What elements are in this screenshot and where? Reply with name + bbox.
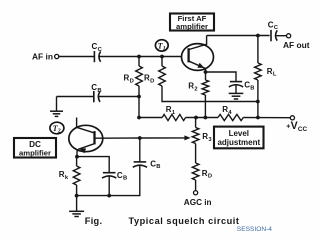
- wire rail left segment: [139, 117, 162, 119]
- svg-text:Typical squelch circuit: Typical squelch circuit: [129, 216, 240, 226]
- svg-text:amplifier: amplifier: [19, 148, 51, 157]
- test point T2: [50, 122, 64, 135]
- svg-text:Fig.: Fig.: [85, 216, 103, 226]
- wire R_D2 top lead: [161, 57, 163, 67]
- svg-text:Level: Level: [229, 129, 249, 138]
- resistor R_1: [162, 105, 185, 121]
- terminal: AF in: [55, 54, 59, 58]
- label AGC in: [184, 198, 212, 207]
- transistor Q1 collector: [189, 36, 207, 50]
- svg-text:amplifier: amplifier: [176, 22, 208, 31]
- caption title: [129, 216, 240, 226]
- node: junction R_3 / rail: [194, 116, 198, 120]
- capacitor C_C1 (input coupling): [92, 42, 103, 62]
- transistor Q1 circle: [182, 44, 214, 71]
- node: junction R_D2/top wire: [160, 55, 164, 59]
- wire R_L top lead: [257, 36, 259, 64]
- terminal: AF out: [287, 34, 291, 38]
- resistor R_D2: [144, 66, 165, 86]
- transistor Q1 emitter: [189, 61, 206, 72]
- capacitor C_B3: [133, 159, 161, 170]
- svg-text:SESSION-4: SESSION-4: [237, 226, 273, 233]
- wire Q1 collector to C_C2: [207, 35, 270, 37]
- node: junction collector / C_B3: [138, 136, 142, 140]
- svg-text:AF in: AF in: [32, 52, 53, 62]
- terminal: AGC in: [194, 191, 198, 195]
- wire R_D2 bottom lead + corner: [162, 86, 258, 102]
- ground (top-left): [50, 97, 63, 117]
- ground (under C_B2): [229, 85, 244, 99]
- wire C_B3 bottom lead + corner: [77, 165, 140, 195]
- wire rail right segment: [243, 117, 290, 119]
- svg-text:AF out: AF out: [283, 40, 310, 50]
- box: Level adjustment: [214, 127, 264, 149]
- node: junction C_B4 / bottom line: [107, 194, 111, 198]
- transistor Q2 collector: [95, 137, 140, 139]
- transistor Q2 circle: [69, 125, 103, 151]
- caption SESSION-4: [237, 226, 273, 233]
- wire rail mid segment: [186, 117, 218, 119]
- resistor R_D3: [192, 163, 212, 180]
- wire Vcc rail corner to Q2 base: [76, 118, 78, 128]
- resistor R_4: [218, 105, 243, 121]
- node: junction R_D1 / Vcc rail: [137, 116, 141, 120]
- resistor R_2: [188, 80, 208, 95]
- transistor Q2 base diag: [77, 127, 94, 133]
- test point T1: [155, 40, 168, 52]
- wire C_C1 to Q1 base: [99, 56, 182, 58]
- box: DC amplifier: [14, 138, 56, 158]
- label +Vcc: [286, 120, 307, 133]
- svg-text:AGC in: AGC in: [184, 198, 212, 207]
- wire C_B4 bottom lead: [108, 176, 110, 196]
- resistor R_k: [59, 157, 80, 196]
- label AF in: [32, 52, 53, 62]
- ground (bottom): [69, 196, 84, 217]
- wire R_D1 bottom lead: [138, 86, 140, 118]
- wire Q1 emitter to C_B2: [206, 72, 237, 81]
- capacitor C_C2 (output coupling): [268, 20, 279, 41]
- transistor Q2 emitter: [77, 144, 94, 157]
- resistor R_D1: [124, 66, 143, 86]
- node: junction R_L / Vcc rail: [256, 116, 260, 120]
- wire R_D1 top lead: [138, 57, 140, 67]
- terminal: +Vcc: [290, 116, 294, 120]
- svg-text:adjustment: adjustment: [217, 138, 260, 147]
- wire R_2 top lead: [205, 72, 207, 80]
- wire C_B3 top lead: [139, 138, 141, 162]
- caption Fig.: [85, 216, 103, 226]
- wire R_L bottom lead: [257, 80, 259, 118]
- transistor Q2 base bar: [93, 131, 95, 144]
- node: Q2 emitter junction: [75, 155, 79, 159]
- wire R_3 to R_D3: [195, 144, 197, 164]
- capacitor C_B4: [102, 171, 127, 182]
- wire ground to C_B1: [57, 96, 94, 98]
- label AF out: [283, 40, 310, 50]
- resistor R_3 (level pot): [192, 128, 212, 144]
- wire R_2 bottom lead: [204, 95, 206, 118]
- capacitor C_B2: [229, 81, 255, 92]
- wire R_3 top lead: [195, 118, 197, 128]
- box: First AF amplifier: [170, 14, 214, 32]
- wire C_C2 to AF out: [276, 35, 286, 37]
- node: junction R_k / bottom line: [75, 194, 79, 198]
- transistor Q1 base bar: [187, 48, 189, 62]
- wire C_B1 to R_D1: [99, 96, 139, 98]
- node: junction mid line / R_L lead: [256, 100, 260, 104]
- node: junction collector / R_L: [256, 34, 260, 38]
- wire emitter to C_B4: [77, 157, 109, 173]
- node: junction C_B1 line / R_D1: [137, 95, 141, 99]
- wiper arrow into R_3: [184, 135, 190, 140]
- resistor R_L: [255, 63, 277, 80]
- capacitor C_B1: [91, 83, 101, 102]
- wire collector to R_3 wiper: [140, 137, 186, 139]
- wire AF in to C_C1: [59, 56, 95, 58]
- node: junction R_D1/top wire: [137, 55, 141, 59]
- node: junction R_2 / Vcc rail: [204, 116, 208, 120]
- node: Q1 emitter junction: [204, 70, 208, 74]
- wire R_D3 to AGC terminal: [195, 180, 197, 191]
